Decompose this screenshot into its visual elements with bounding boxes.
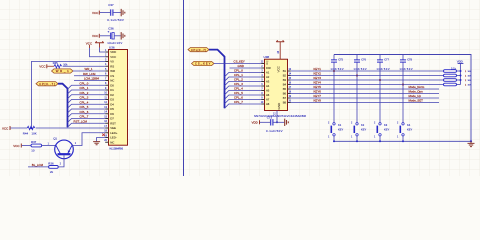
svg-text:D3: D3: [110, 98, 114, 102]
svg-text:BL_LCM: BL_LCM: [32, 163, 44, 167]
svg-text:LED-: LED-: [110, 136, 117, 140]
svg-text:CP[0..7]: CP[0..7]: [39, 82, 55, 86]
svg-text:KEY: KEY: [407, 128, 412, 132]
capacitor C73: [260, 121, 270, 123]
wire CPL_0 (bus entry): [68, 85, 106, 89]
wire R44 to pin17 VEE: [36, 127, 106, 129]
svg-text:CS: CS: [110, 74, 114, 78]
node junction col4 bottom: [402, 140, 404, 142]
wire CPL_2 (bus entry to A3): [225, 82, 262, 86]
svg-text:KEY7: KEY7: [314, 94, 322, 98]
wire column 3 top: [379, 55, 381, 60]
svg-text:A1: A1: [266, 71, 270, 75]
wire CPL_6 (bus entry to A7): [225, 100, 262, 104]
ground (bottom right): [468, 141, 475, 146]
U36 pins 1-20 (stubs, numbers, names): [104, 50, 117, 145]
svg-text:VDD: VDD: [252, 121, 259, 125]
svg-text:103/50V: 103/50V: [400, 68, 413, 71]
svg-text:KEY2: KEY2: [314, 72, 322, 76]
svg-text:CPL_2: CPL_2: [234, 78, 243, 82]
svg-text:KEY4: KEY4: [314, 81, 322, 85]
svg-text:VCC: VCC: [13, 144, 20, 148]
svg-text:0.1uF/50V: 0.1uF/50V: [266, 129, 283, 133]
svg-text:VCC: VCC: [92, 34, 99, 38]
no-ERC marker (pin18): [102, 134, 105, 136]
node junction R-VDD: [460, 70, 462, 72]
svg-text:NC: NC: [110, 140, 114, 144]
wire DIR row: [230, 67, 262, 69]
svg-text:VCC: VCC: [39, 65, 46, 69]
port WR_1 (row pin5): [52, 69, 74, 73]
svg-text:103/50V: 103/50V: [377, 68, 390, 71]
node junction col4/KEY4: [402, 83, 404, 85]
svg-text:VCC: VCC: [2, 126, 9, 130]
svg-text:C77: C77: [384, 58, 389, 62]
wire (vertical divider line): [183, 0, 185, 176]
resistor R57: [444, 79, 457, 82]
wire R37 to Q1 emitter: [42, 145, 56, 147]
svg-text:SN74LVC4245A/SN74LVC4245ADBR: SN74LVC4245A/SN74LVC4245ADBR: [254, 114, 306, 118]
svg-text:CPL[0..7]: CPL[0..7]: [191, 48, 206, 52]
wire column 1 bottom: [333, 136, 335, 141]
ground (right of C73): [285, 119, 289, 126]
svg-text:R37: R37: [31, 140, 37, 144]
wire column 4 middle: [402, 62, 404, 122]
resistor R55: [444, 70, 457, 73]
wire column 2 bottom: [356, 136, 358, 141]
svg-text:C75: C75: [338, 58, 343, 62]
node junction: [276, 121, 278, 123]
svg-text:10: 10: [31, 149, 35, 153]
wire VCC to R44: [11, 127, 28, 129]
svg-text:KEY: KEY: [384, 128, 389, 132]
U38 left pins (OE, DIR, A1-A8): [261, 64, 264, 105]
wire column 1 top: [333, 55, 335, 60]
svg-text:WR_1: WR_1: [85, 67, 93, 71]
wire CPL_4 (bus entry): [68, 104, 106, 108]
port CPL[0..7]: [188, 48, 209, 52]
svg-text:Q1: Q1: [53, 137, 57, 141]
node junction col3/KEY3: [379, 79, 381, 81]
svg-text:DIR: DIR: [266, 66, 271, 70]
transistor Q1 (PNP): [53, 137, 77, 159]
svg-text:A3: A3: [266, 80, 270, 84]
svg-text:Mode_Up: Mode_Up: [409, 94, 422, 98]
wire CPL_3 (bus entry to A4): [225, 86, 262, 90]
svg-text:U36: U36: [109, 45, 115, 49]
svg-text:RW_LCM: RW_LCM: [83, 72, 96, 76]
switch K1: [333, 123, 335, 125]
resistor R44 10K (zigzag): [27, 126, 35, 129]
svg-text:CPL_1: CPL_1: [234, 73, 243, 77]
resistor R58: [444, 83, 457, 86]
ground (right of C37): [121, 9, 125, 16]
svg-text:D1: D1: [110, 88, 114, 92]
ground (below U36): [93, 142, 100, 145]
svg-text:C36: C36: [108, 26, 114, 30]
node junction col2 bottom: [356, 140, 358, 142]
svg-text:GND: GND: [277, 102, 281, 110]
svg-text:A4: A4: [266, 84, 270, 88]
node junction col2/KEY2: [356, 74, 358, 76]
wire pin6: [74, 75, 105, 77]
capacitor C77: [377, 60, 383, 62]
capacitor C37: [92, 3, 124, 22]
wire column 3 middle: [379, 62, 381, 122]
svg-text:10k: 10k: [63, 62, 68, 66]
resistor R45 10k (zigzag): [54, 65, 62, 68]
svg-text:RS: RS: [110, 64, 114, 68]
svg-text:VCC: VCC: [277, 65, 281, 72]
svg-text:GND: GND: [238, 64, 244, 68]
svg-text:C76: C76: [361, 58, 366, 62]
svg-text:K3: K3: [384, 123, 388, 127]
wire KEY7 row: [291, 97, 439, 99]
svg-text:R36: R36: [48, 162, 54, 166]
resistor R56: [444, 74, 457, 77]
svg-text:B5: B5: [283, 87, 287, 91]
wire V0 (pin3) long left+down to R44: [31, 62, 105, 129]
resistor R36 2k: [49, 166, 59, 169]
svg-text:10K: 10K: [468, 71, 472, 73]
svg-text:VDD: VDD: [110, 50, 116, 54]
ground (right of C36): [121, 32, 125, 39]
svg-text:C37: C37: [108, 3, 114, 7]
wire column 1 middle: [333, 62, 335, 122]
wire VCC to pin2: [90, 48, 106, 57]
svg-text:KEY1: KEY1: [314, 67, 322, 71]
svg-text:B6: B6: [283, 92, 287, 96]
wire column 4 bottom: [402, 136, 404, 141]
svg-text:KEY6: KEY6: [314, 90, 322, 94]
svg-text:10K: 10K: [468, 85, 472, 87]
wire CPL_0 (bus entry to A1): [225, 73, 262, 77]
node junction at R44: [30, 127, 32, 129]
svg-text:B2: B2: [283, 74, 287, 78]
svg-text:10K: 10K: [32, 132, 37, 136]
svg-text:CPL_5: CPL_5: [80, 105, 89, 109]
svg-text:KEY8: KEY8: [314, 99, 322, 103]
wire column 4 top: [402, 55, 404, 60]
svg-text:CPL_0: CPL_0: [234, 69, 243, 73]
svg-text:CPL_3: CPL_3: [80, 96, 89, 100]
svg-text:CPL_2: CPL_2: [80, 91, 89, 95]
svg-text:CPL_4: CPL_4: [80, 100, 89, 104]
svg-text:K2: K2: [361, 123, 365, 127]
resistor R37: [31, 144, 42, 147]
svg-text:0.1uF/50V: 0.1uF/50V: [107, 18, 124, 22]
U38 right pins (B1-B8): [288, 71, 291, 103]
wire pin7: [74, 80, 105, 82]
svg-text:B7: B7: [283, 96, 287, 100]
node junction R-VDD: [460, 79, 462, 81]
capacitor C36: [92, 26, 122, 45]
svg-text:A5: A5: [266, 89, 270, 93]
svg-text:Mode_Opn: Mode_Opn: [409, 90, 424, 94]
wire KEY5 row: [291, 88, 439, 90]
svg-text:HL12864R90: HL12864R90: [110, 149, 124, 151]
wire KEY6 row: [291, 93, 439, 95]
wire Q1 collector to pin18 LED+: [72, 133, 105, 146]
node junction col1 bottom: [333, 140, 335, 142]
capacitor C76: [354, 60, 360, 62]
svg-text:10K: 10K: [468, 76, 472, 78]
svg-text:KEY3: KEY3: [314, 76, 322, 80]
switch K4: [402, 123, 404, 125]
wire KEY4 row: [291, 84, 444, 86]
svg-text:LCM_12864: LCM_12864: [84, 77, 99, 81]
wire column 2 top: [356, 55, 358, 60]
svg-text:CPL_6: CPL_6: [80, 110, 89, 114]
wire CPL_1 (bus entry): [68, 90, 106, 94]
svg-text:A8: A8: [266, 102, 270, 106]
wire VCC to pin1: [100, 48, 106, 53]
wire bottom rail: [334, 140, 471, 142]
wire R45 to pin4: [63, 65, 106, 67]
wire KEY1 row: [291, 70, 444, 72]
svg-text:CPL_7: CPL_7: [80, 115, 89, 119]
bus CP[0..7]: [58, 84, 68, 128]
wire KEY3 row: [291, 79, 444, 81]
wire column 2 middle: [356, 62, 358, 122]
svg-text:VCC: VCC: [110, 55, 116, 59]
power VCC (text style, to pin 2): [86, 42, 93, 48]
svg-text:D2: D2: [110, 93, 114, 97]
svg-text:R45: R45: [53, 61, 58, 65]
node junction col3 bottom: [379, 140, 381, 142]
svg-text:B3: B3: [283, 78, 287, 82]
svg-text:KEY: KEY: [338, 128, 343, 132]
svg-text:LED+: LED+: [110, 131, 118, 135]
wire CPL_1 (bus entry to A2): [225, 77, 262, 81]
svg-text:Mode_Norm: Mode_Norm: [409, 85, 425, 89]
wire CPL_3 (bus entry): [68, 100, 106, 104]
port CS_KEY: [192, 61, 215, 65]
svg-text:A7: A7: [266, 98, 270, 102]
bus to U38: [209, 50, 225, 109]
svg-text:CPL_3: CPL_3: [234, 82, 243, 86]
svg-text:D4: D4: [110, 102, 114, 106]
svg-text:CPL_7: CPL_7: [234, 100, 243, 104]
svg-text:CPL_6: CPL_6: [234, 96, 243, 100]
svg-text:KEY5: KEY5: [314, 85, 322, 89]
wire RST_LCM (bus entry): [68, 123, 106, 127]
svg-text:CS_KEY: CS_KEY: [234, 60, 245, 64]
wire U38 GND pin down: [276, 111, 278, 123]
svg-text:RST: RST: [110, 121, 116, 125]
svg-text:B4: B4: [283, 83, 287, 87]
svg-text:CPL_1: CPL_1: [80, 86, 89, 90]
svg-text:D5: D5: [110, 107, 114, 111]
wire KEY8 row: [291, 102, 439, 104]
svg-text:Mode_SET: Mode_SET: [409, 99, 424, 103]
capacitor C75: [331, 60, 337, 62]
svg-text:VEE: VEE: [110, 126, 116, 130]
port CP[0..7]: [36, 82, 58, 86]
wire CPL_5 (bus entry): [68, 109, 106, 113]
switch K2: [356, 123, 358, 125]
svg-text:KEY: KEY: [361, 128, 366, 132]
svg-text:CPL_4: CPL_4: [234, 87, 243, 91]
wire R36 left: [28, 166, 49, 168]
svg-text:103/50V: 103/50V: [354, 68, 367, 71]
svg-text:K1: K1: [338, 123, 342, 127]
wire port to pin5: [73, 70, 105, 72]
svg-text:CPL_5: CPL_5: [234, 91, 243, 95]
wire port CS_KEY to OE pin: [214, 63, 261, 65]
switch K3: [379, 123, 381, 125]
svg-text:V0: V0: [110, 60, 114, 64]
power VCC (above U38, pin 24): [276, 40, 284, 41]
svg-text:D6: D6: [110, 112, 114, 116]
svg-text:WR: WR: [110, 69, 115, 73]
capacitor C78: [400, 60, 406, 62]
wire top GND rail: [334, 55, 471, 142]
svg-text:D0: D0: [110, 83, 114, 87]
svg-text:CS_KEY: CS_KEY: [195, 62, 211, 66]
wire CPL_4 (bus entry to A5): [225, 91, 262, 95]
power VCC (bar style, to pin 1): [95, 41, 104, 47]
wire CPL_2 (bus entry): [68, 95, 106, 99]
svg-text:VCC: VCC: [92, 11, 99, 15]
svg-text:R44: R44: [23, 132, 29, 136]
svg-text:103/50V: 103/50V: [331, 68, 344, 71]
svg-text:K4: K4: [407, 123, 411, 127]
node junction bottom right: [470, 140, 472, 142]
wire CPL_7 (bus entry): [68, 119, 106, 123]
svg-text:A6: A6: [266, 93, 270, 97]
wire KEY2 row: [291, 75, 444, 77]
svg-text:A2: A2: [266, 75, 270, 79]
wire pin19 LED- to ground: [97, 138, 106, 142]
IC U36 (LCD module connector): [109, 45, 128, 150]
svg-text:RST_LCM: RST_LCM: [74, 119, 88, 123]
svg-text:U38: U38: [264, 55, 270, 59]
svg-text:B8: B8: [283, 101, 287, 105]
wire VCC to R37: [22, 145, 31, 147]
node junction R-VDD: [460, 75, 462, 77]
wire CPL_7 (bus entry to A8): [225, 104, 262, 108]
wire column 3 bottom: [379, 136, 381, 141]
svg-text:D7: D7: [110, 117, 114, 121]
svg-text:C78: C78: [407, 58, 412, 62]
svg-text:G: G: [266, 62, 268, 66]
svg-text:C73: C73: [267, 116, 273, 120]
wire CPL_6 (bus entry): [68, 114, 106, 118]
wire CPL_5 (bus entry to A6): [225, 95, 262, 99]
svg-text:NC: NC: [110, 79, 114, 83]
svg-text:CPL_0: CPL_0: [80, 81, 89, 85]
node junction col1/KEY1: [333, 70, 335, 72]
svg-text:10K: 10K: [468, 80, 472, 82]
svg-text:B1: B1: [283, 69, 287, 73]
wire Q1 base down: [58, 155, 64, 167]
